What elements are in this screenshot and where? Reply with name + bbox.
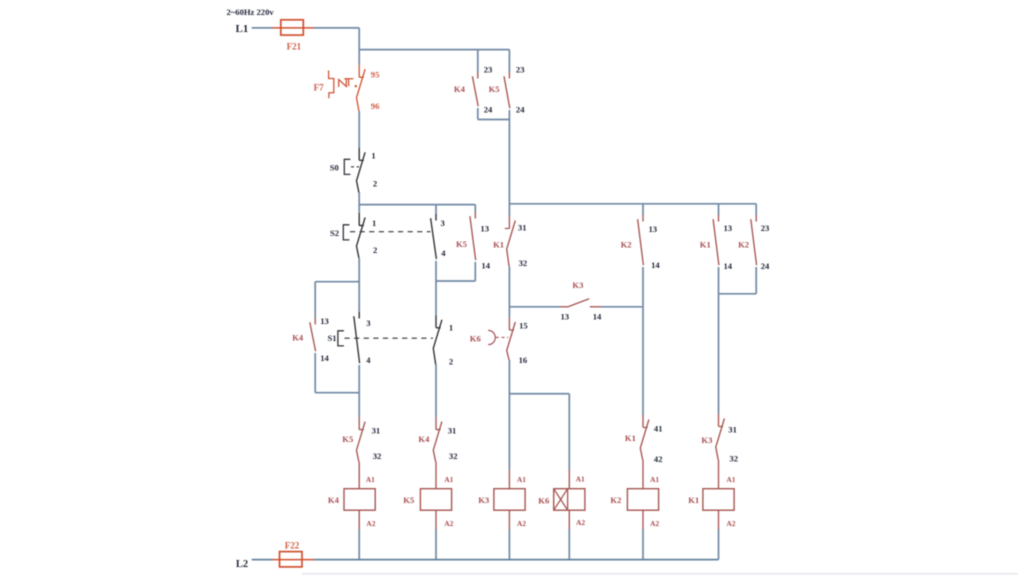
svg-text:23: 23 [761, 223, 770, 233]
svg-text:K2: K2 [610, 495, 621, 505]
svg-text:1: 1 [449, 323, 453, 333]
svg-text:L1: L1 [236, 23, 249, 35]
wire faint bottom artifact [302, 573, 1018, 575]
svg-text:F21: F21 [287, 41, 302, 51]
svg-text:K3: K3 [572, 280, 583, 290]
wire to coil K6 [568, 470, 570, 489]
svg-text:K6: K6 [470, 334, 482, 344]
contact K4 31-32 [433, 417, 442, 462]
coil K5 [420, 489, 451, 511]
svg-text:A2: A2 [650, 519, 659, 528]
relay actuator arc K6 [488, 330, 495, 344]
svg-text:K4: K4 [328, 495, 340, 505]
svg-text:A2: A2 [517, 519, 526, 528]
wire K4 branch bottom join [315, 392, 359, 394]
svg-text:L2: L2 [236, 559, 248, 570]
svg-text:A1: A1 [366, 475, 375, 484]
mechanical link S2 [350, 231, 431, 233]
coil K2 [627, 489, 658, 511]
wire K4 23 branch top [477, 50, 479, 72]
svg-text:32: 32 [373, 451, 382, 461]
wire K1-42 to coil K2 [642, 460, 644, 489]
wire K5 14 branch bottom [474, 262, 476, 281]
contact K3 13-14 [568, 299, 589, 307]
thermal trip symbol F7 [329, 71, 354, 99]
wire K3 branch right [601, 306, 643, 308]
svg-text:K4: K4 [418, 434, 430, 444]
svg-text:4: 4 [441, 248, 446, 258]
svg-text:16: 16 [519, 355, 528, 365]
wire K1 14 down [718, 267, 720, 294]
wire right rail [509, 203, 756, 205]
wire K1 branch down to K3 31 [718, 294, 720, 414]
wire coil K1 to rail [718, 510, 720, 529]
wire parallel pair bottom join [478, 119, 510, 121]
wire K4 13 branch [314, 282, 316, 318]
svg-text:K1: K1 [625, 433, 636, 443]
svg-text:K5: K5 [342, 434, 353, 444]
wire S2 to S1 section [358, 258, 360, 312]
wire K5 13 branch top [474, 205, 476, 212]
fuse F21 [281, 20, 304, 35]
svg-text:42: 42 [654, 454, 663, 464]
svg-text:24: 24 [761, 261, 770, 271]
svg-text:41: 41 [654, 424, 663, 434]
wire K3 contact right stub [590, 306, 601, 308]
wire L2 lead [252, 559, 273, 561]
svg-text:S1: S1 [328, 333, 337, 343]
wire K5-32 to coil K4 [358, 462, 360, 489]
svg-text:14: 14 [651, 260, 660, 270]
pushbutton head S1 [338, 331, 344, 346]
wire coil K4 to rail [358, 510, 360, 529]
svg-text:K1: K1 [688, 495, 699, 505]
svg-text:K4: K4 [454, 84, 466, 94]
wire K2 23 branch top [755, 204, 757, 215]
wire K3 branch left [509, 306, 560, 308]
svg-text:32: 32 [519, 258, 528, 268]
svg-text:2~60Hz 220v: 2~60Hz 220v [227, 7, 275, 17]
svg-text:13: 13 [561, 312, 570, 322]
wire junction to K6 coil branch [509, 393, 569, 395]
svg-text:K2: K2 [738, 240, 749, 250]
svg-text:A1: A1 [444, 475, 453, 484]
wire S1 to K5 31 [358, 365, 360, 417]
wire K4-32 to coil K5 [435, 462, 437, 489]
wire L1 to main node [314, 27, 360, 29]
contact F7 95-96 [357, 65, 366, 111]
wire S1 NC to K4 31 [435, 365, 437, 418]
mechanical link S1 [345, 337, 434, 339]
wire join K1-14 K2-24 [719, 293, 757, 295]
wire K4 14 branch [314, 353, 316, 393]
fuse F22 [280, 552, 303, 567]
svg-text:13: 13 [724, 223, 733, 233]
svg-text:S0: S0 [330, 162, 339, 172]
pushbutton head S2 [343, 225, 349, 240]
svg-text:3: 3 [441, 218, 445, 228]
wire bottom rail [314, 559, 719, 561]
wire S2 NO branch top [435, 205, 437, 214]
svg-text:13: 13 [649, 224, 658, 234]
contact K1 13-14 [713, 215, 719, 265]
svg-text:K1: K1 [493, 240, 504, 250]
wire S2 NO to join [435, 261, 437, 316]
svg-text:K3: K3 [701, 435, 712, 445]
svg-text:2: 2 [373, 178, 377, 188]
contact K1 31-32 [505, 216, 516, 267]
pushbutton head S0 [344, 159, 350, 174]
svg-text:F7: F7 [314, 82, 324, 92]
svg-text:S2: S2 [330, 228, 339, 238]
svg-text:K5: K5 [403, 495, 414, 505]
wire to coil K3 [508, 470, 510, 489]
svg-text:2: 2 [373, 245, 377, 255]
wire K1 32 to K6 15 [508, 267, 510, 318]
svg-text:K5: K5 [489, 84, 500, 94]
wire coil K3 to rail [508, 510, 510, 529]
svg-text:31: 31 [728, 424, 737, 434]
svg-text:23: 23 [484, 64, 493, 74]
svg-text:A2: A2 [444, 519, 453, 528]
svg-text:14: 14 [593, 312, 602, 322]
coil K3 [494, 489, 525, 511]
wire main drop from L1 [358, 28, 360, 65]
svg-text:31: 31 [448, 425, 457, 435]
wire join S2-4 to K5-14 [436, 280, 475, 282]
wire left rail [359, 204, 475, 206]
wire S0 to rail node [358, 193, 360, 214]
svg-text:A1: A1 [576, 475, 585, 484]
wire K5 24 branch bottom [508, 110, 510, 120]
svg-text:23: 23 [516, 64, 525, 74]
wire K1 13 branch top [718, 204, 720, 215]
svg-text:K1: K1 [700, 240, 711, 250]
svg-text:A1: A1 [650, 475, 659, 484]
wire K5 23 branch top [508, 50, 510, 72]
svg-text:31: 31 [372, 425, 381, 435]
contact K5 13-14 [470, 212, 476, 260]
svg-text:13: 13 [480, 223, 489, 233]
svg-text:15: 15 [519, 321, 528, 331]
svg-text:3: 3 [366, 318, 370, 328]
wire top rail to K4/K5 branch [359, 49, 509, 51]
svg-text:A2: A2 [576, 518, 585, 527]
svg-text:24: 24 [516, 104, 525, 114]
wire K3-32 to coil K1 [718, 460, 720, 489]
contact K2 23-24 [751, 215, 757, 265]
svg-text:14: 14 [724, 261, 733, 271]
wire K6 16 down to K3 coil [508, 360, 510, 470]
contact S2 1-2 [357, 213, 366, 258]
coil K4 [344, 489, 375, 511]
coil K1 [703, 489, 734, 511]
svg-text:A1: A1 [726, 475, 735, 484]
svg-text:A2: A2 [726, 519, 735, 528]
wire K6 coil branch [568, 394, 570, 470]
coil K6 timer [554, 489, 585, 511]
svg-text:14: 14 [320, 353, 329, 363]
contact K2 13-14 [638, 215, 644, 265]
wire K2 14 down to K1 41 [642, 267, 644, 415]
contact S1 1-2 [433, 315, 442, 364]
svg-text:31: 31 [518, 222, 527, 232]
svg-text:95: 95 [371, 70, 380, 80]
contact K3 31-32 [716, 414, 725, 460]
svg-text:1: 1 [371, 150, 375, 160]
svg-text:K5: K5 [456, 239, 467, 249]
svg-text:K4: K4 [292, 333, 304, 343]
wire coil K5 to rail [435, 510, 437, 529]
contact K4 13-14 [310, 318, 316, 351]
mechanical link S0 [351, 166, 359, 168]
contact K1 41-42 [640, 415, 649, 460]
wire K3 contact left stub [560, 306, 568, 308]
contact S2 3-4 [431, 214, 437, 259]
svg-text:32: 32 [729, 454, 738, 464]
wire K2 13 branch top [642, 204, 644, 215]
svg-text:14: 14 [481, 260, 490, 270]
svg-text:4: 4 [366, 355, 371, 365]
wire node to K1 31 [508, 120, 510, 217]
contact S0 1-2 [357, 148, 366, 193]
wire K2 24 down [755, 267, 757, 294]
wire K4 branch top join [315, 281, 359, 283]
svg-text:24: 24 [484, 104, 493, 114]
wire through fuse F22 [273, 559, 314, 561]
contact K6 15-16 [507, 318, 516, 361]
svg-text:K2: K2 [621, 240, 632, 250]
svg-text:K6: K6 [538, 495, 550, 505]
wire coil K2 to rail [642, 510, 644, 529]
wire L1 lead [252, 27, 273, 29]
wire K4 24 branch bottom [477, 108, 479, 120]
mechanical link K6 [496, 336, 508, 338]
svg-text:1: 1 [372, 218, 376, 228]
contact S1 3-4 [354, 312, 360, 363]
contact K4 23-24 [472, 72, 478, 106]
svg-text:32: 32 [449, 451, 458, 461]
svg-text:K3: K3 [478, 495, 489, 505]
svg-text:2: 2 [449, 357, 453, 367]
svg-text:96: 96 [371, 101, 380, 111]
wire through fuse F21 [273, 27, 314, 29]
contact K5 23-24 [504, 72, 510, 108]
wire F7 to S0 [358, 111, 360, 148]
svg-text:A1: A1 [517, 475, 526, 484]
svg-text:13: 13 [320, 316, 329, 326]
svg-text:F22: F22 [285, 541, 300, 551]
wire coil K6 to rail [568, 510, 570, 529]
svg-text:A2: A2 [366, 519, 375, 528]
contact K5 31-32 [357, 417, 366, 462]
